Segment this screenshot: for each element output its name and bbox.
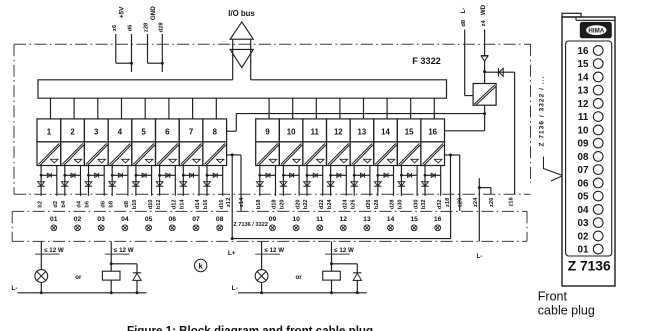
svg-text:F 3322: F 3322 — [412, 56, 441, 66]
node channel 16 split — [424, 174, 427, 177]
svg-text:or: or — [75, 274, 82, 281]
node channel 11 split — [306, 174, 309, 177]
svg-text:b32: b32 — [421, 199, 427, 209]
svg-text:08: 08 — [216, 216, 224, 223]
diode channel 6 horizontal — [160, 174, 176, 176]
wire bus drop channel 4 — [121, 98, 123, 119]
svg-text:4: 4 — [118, 128, 123, 137]
wire bus drop channel 3 — [97, 98, 99, 119]
svg-text:9: 9 — [265, 128, 270, 137]
svg-text:01: 01 — [50, 216, 58, 223]
svg-text:d28: d28 — [390, 199, 396, 209]
svg-text:02: 02 — [578, 231, 589, 242]
wire bus drop channel 5 — [144, 98, 146, 119]
node channel 14 split — [376, 174, 379, 177]
svg-text:05: 05 — [145, 216, 153, 223]
wire L- stub — [478, 178, 480, 241]
wire pin z6 (+5V) — [115, 34, 117, 63]
svg-text:d20: d20 — [295, 199, 301, 209]
wire L+ feed group1 — [227, 154, 241, 156]
node supply rail right — [483, 112, 486, 115]
leader line to plug — [544, 157, 563, 176]
channel 2 output driver (opto) — [61, 142, 85, 166]
svg-text:≤ 12 W: ≤ 12 W — [265, 247, 285, 254]
svg-text:Z 7136: Z 7136 — [568, 259, 611, 274]
svg-text:16: 16 — [434, 216, 442, 223]
node z24 junction — [478, 186, 481, 189]
channel 11 input box — [303, 119, 327, 142]
lamp load — [255, 270, 268, 283]
diode channel 4 vertical — [109, 182, 116, 186]
wire channel 14 output B — [393, 166, 395, 196]
channel 10 input box — [279, 119, 303, 142]
svg-text:03: 03 — [578, 218, 589, 229]
load wire lamp branch — [40, 241, 42, 269]
svg-text:14: 14 — [387, 216, 395, 223]
svg-text:1: 1 — [47, 128, 52, 137]
wire pin z14 — [240, 155, 242, 211]
svg-text:d32: d32 — [437, 199, 443, 209]
node GND junction — [161, 62, 164, 65]
wire L+ feed group2 — [445, 154, 460, 156]
node channel 2 split — [63, 174, 66, 177]
load wire relay branch — [110, 241, 112, 271]
svg-text:b22: b22 — [303, 199, 309, 209]
svg-text:b2: b2 — [37, 201, 43, 208]
svg-text:HIMA: HIMA — [588, 27, 604, 34]
node diode to L- — [136, 291, 139, 294]
wire pin z18 (L+) — [450, 155, 452, 211]
svg-text:14: 14 — [381, 128, 390, 137]
svg-text:b16: b16 — [203, 199, 209, 209]
channel 3 input box — [84, 119, 108, 142]
node channel 8 split — [206, 174, 209, 177]
svg-text:b12: b12 — [156, 199, 162, 209]
wire channel 1 output B — [56, 166, 58, 196]
svg-text:z24: z24 — [473, 197, 479, 207]
wire bus drop channel 8 — [215, 98, 217, 119]
svg-text:d16: d16 — [219, 199, 225, 209]
svg-text:L+: L+ — [228, 250, 236, 257]
module boundary dash-dot border — [14, 43, 531, 45]
wire channel 7 output A — [182, 166, 184, 196]
wire freewheeling branch — [111, 263, 137, 265]
node relay branch split — [110, 262, 113, 265]
node channel 15 split — [400, 174, 403, 177]
HIMA logo — [580, 22, 612, 38]
wire channel 12 output A — [330, 166, 332, 196]
svg-text:b20: b20 — [280, 199, 286, 209]
channel 7 output driver (opto) — [179, 142, 203, 166]
svg-text:13: 13 — [363, 216, 371, 223]
channel 2 input box — [61, 119, 85, 142]
channel 14 output driver (opto) — [374, 142, 398, 166]
lamp load — [35, 270, 48, 283]
node channel 9 split — [258, 174, 261, 177]
wire channel 12 output B — [345, 166, 347, 196]
plug terminal field — [566, 41, 612, 256]
diode channel 7 vertical — [180, 182, 187, 186]
diode channel 13 vertical — [351, 182, 358, 186]
wire channel 9 output B — [275, 166, 277, 196]
wire bus drop channel 2 — [73, 98, 75, 119]
diode channel 8 horizontal — [207, 174, 223, 176]
front cable plug body — [562, 17, 615, 286]
svg-text:10: 10 — [292, 216, 300, 223]
svg-text:≤ 12 W: ≤ 12 W — [334, 247, 354, 254]
svg-text:z4: z4 — [481, 19, 487, 26]
diode channel 12 vertical — [327, 182, 334, 186]
wire channel 5 output B — [151, 166, 153, 196]
wire bus drop channel 15 — [410, 98, 412, 119]
L- return rail — [238, 292, 367, 294]
svg-text:d18: d18 — [272, 199, 278, 209]
svg-text:L-: L- — [460, 8, 467, 14]
freewheeling diode — [133, 272, 141, 274]
svg-text:b6: b6 — [85, 201, 91, 208]
svg-text:09: 09 — [269, 216, 277, 223]
diode channel 16 vertical — [422, 182, 429, 186]
svg-text:04: 04 — [578, 205, 589, 216]
svg-text:10: 10 — [578, 125, 589, 136]
svg-text:d30: d30 — [413, 199, 419, 209]
wire bus drop channel 13 — [363, 98, 365, 119]
node +5V junction — [130, 62, 133, 65]
svg-text:z28: z28 — [144, 22, 150, 32]
svg-text:11: 11 — [311, 128, 320, 137]
diode channel 10 vertical — [280, 182, 287, 186]
diode channel 8 vertical — [204, 182, 211, 186]
svg-text:Z 7136 / 3322: Z 7136 / 3322 — [233, 222, 268, 228]
supply rail wire — [236, 113, 484, 115]
svg-text:8: 8 — [213, 128, 218, 137]
svg-text:d2: d2 — [53, 201, 59, 208]
wire bus drop channel 6 — [168, 98, 170, 119]
node lamp to L- — [40, 291, 43, 294]
diode channel 11 vertical — [304, 182, 311, 186]
load wire relay branch — [331, 241, 333, 271]
node relay branch split — [330, 262, 333, 265]
svg-text:12: 12 — [334, 128, 343, 137]
svg-text:15: 15 — [410, 216, 418, 223]
svg-text:≤ 12 W: ≤ 12 W — [44, 247, 64, 254]
svg-text:d14: d14 — [195, 199, 201, 210]
circled k note — [195, 259, 207, 271]
freewheeling diode — [353, 272, 361, 274]
svg-text:d28: d28 — [159, 22, 165, 33]
node channel 5 split — [135, 174, 138, 177]
svg-text:L-: L- — [476, 253, 482, 260]
wire bus drop channel 7 — [192, 98, 194, 119]
wire channel 13 output B — [369, 166, 371, 196]
svg-text:01: 01 — [578, 245, 589, 256]
svg-text:Front: Front — [538, 290, 568, 304]
svg-text:b18: b18 — [256, 199, 262, 209]
wire channel 13 output A — [353, 166, 355, 196]
diode channel 11 horizontal — [307, 174, 323, 176]
svg-text:07: 07 — [578, 165, 589, 176]
channel 13 input box — [350, 119, 374, 142]
svg-text:b30: b30 — [398, 199, 404, 209]
svg-text:d12: d12 — [172, 199, 178, 209]
diode D-z16 horizontal (cathode left) — [485, 71, 515, 73]
channel 6 input box — [156, 119, 180, 142]
svg-text:z12: z12 — [226, 198, 232, 207]
channel 8 output driver (opto) — [203, 142, 227, 166]
wire bus drop channel 16 — [433, 98, 435, 119]
svg-text:03: 03 — [97, 216, 105, 223]
svg-text:b26: b26 — [350, 199, 356, 209]
svg-text:05: 05 — [578, 192, 589, 203]
wire freewheeling branch — [332, 263, 358, 265]
channel 5 output driver (opto) — [132, 142, 156, 166]
node channel 13 split — [353, 174, 356, 177]
diode channel 7 horizontal — [183, 174, 199, 176]
relay coil load — [323, 271, 341, 280]
watchdog relay U-wd — [473, 84, 496, 106]
diode channel 15 vertical — [398, 182, 405, 186]
channel 10 output driver (opto) — [279, 142, 303, 166]
node channel 3 split — [87, 174, 90, 177]
wire channel 16 output A — [424, 166, 426, 196]
svg-text:b8: b8 — [108, 201, 114, 208]
wire bus drop channel 9 — [268, 98, 270, 119]
diode channel 2 vertical — [61, 182, 68, 186]
wire pin z12 (L+) — [231, 155, 233, 239]
wire channel 15 output B — [416, 166, 418, 196]
svg-text:L-: L- — [11, 285, 17, 292]
rail elbow to group 2 — [484, 114, 486, 131]
svg-text:d4: d4 — [77, 200, 83, 207]
node channel 12 split — [329, 174, 332, 177]
svg-text:7: 7 — [189, 128, 193, 137]
diode channel 1 vertical — [38, 182, 45, 186]
L- return rail — [18, 292, 147, 294]
svg-text:14: 14 — [578, 72, 589, 83]
diode channel 9 horizontal — [260, 174, 276, 176]
svg-text:16: 16 — [578, 46, 589, 57]
svg-text:b10: b10 — [132, 199, 138, 209]
node channel 10 split — [282, 174, 285, 177]
wire bus drop channel 1 — [50, 98, 52, 119]
svg-text:I/O bus: I/O bus — [228, 9, 255, 18]
svg-text:+5V: +5V — [119, 6, 126, 18]
wire channel 8 output B — [222, 166, 224, 196]
svg-text:d8: d8 — [461, 19, 467, 27]
diode channel 1 horizontal — [41, 174, 57, 176]
channel 6 output driver (opto) — [156, 142, 180, 166]
svg-text:or: or — [296, 274, 303, 281]
wire channel 4 output A — [111, 166, 113, 196]
diode channel 15 horizontal — [401, 174, 417, 176]
channel 9 output driver (opto) — [256, 142, 280, 166]
I/O bus arrow down — [230, 49, 253, 67]
wire bus drop channel 14 — [386, 98, 388, 119]
plug top tab — [562, 13, 581, 17]
channel 3 output driver (opto) — [84, 142, 108, 166]
wire channel 3 output B — [103, 166, 105, 196]
node channel 7 split — [182, 174, 185, 177]
svg-text:d6: d6 — [128, 24, 134, 32]
svg-text:d10: d10 — [148, 199, 154, 209]
diode channel 14 vertical — [374, 182, 381, 186]
diode channel 3 vertical — [85, 182, 92, 186]
I/O bus shaft — [232, 39, 234, 80]
wire watchdog output — [484, 105, 486, 113]
svg-text:15: 15 — [405, 128, 414, 137]
wire pin z4 WD input — [484, 30, 486, 56]
svg-text:cable plug: cable plug — [538, 304, 595, 318]
rail elbow to group 1 — [235, 114, 237, 132]
svg-text:b4: b4 — [61, 200, 67, 207]
node z12 junction — [231, 153, 234, 156]
wire pin z26 — [479, 187, 491, 189]
node z18 junction — [449, 154, 452, 157]
diode channel 4 horizontal — [112, 174, 128, 176]
node channel 4 split — [111, 174, 114, 177]
svg-text:z16: z16 — [508, 197, 514, 207]
svg-text:10: 10 — [287, 128, 296, 137]
relay coil load — [102, 271, 120, 280]
svg-text:02: 02 — [74, 216, 82, 223]
svg-text:11: 11 — [578, 112, 589, 123]
wire channel 16 output B — [440, 166, 442, 196]
svg-text:b24: b24 — [327, 199, 333, 210]
diode channel 10 horizontal — [283, 174, 299, 176]
channel 15 output driver (opto) — [397, 142, 421, 166]
svg-text:5: 5 — [142, 128, 147, 137]
wire channel 14 output A — [377, 166, 379, 196]
channel 14 input box — [374, 119, 398, 142]
diode channel 13 horizontal — [354, 174, 370, 176]
node channel 6 split — [158, 174, 161, 177]
wire channel 9 output A — [259, 166, 261, 196]
wire channel 3 output A — [88, 166, 90, 196]
wire channel 11 output A — [306, 166, 308, 196]
diode channel 16 horizontal — [425, 174, 441, 176]
diode channel 5 horizontal — [136, 174, 152, 176]
wire channel 5 output A — [135, 166, 137, 196]
wire pin d28 (GND) — [161, 34, 163, 72]
svg-text:08: 08 — [578, 152, 589, 163]
svg-text:06: 06 — [578, 178, 589, 189]
svg-text:Figure 1: Block diagram and fr: Figure 1: Block diagram and front cable … — [127, 325, 373, 331]
channel 8 input box — [203, 119, 227, 142]
svg-text:b14: b14 — [180, 199, 186, 210]
wire channel 8 output A — [206, 166, 208, 196]
svg-text:d24: d24 — [343, 199, 349, 210]
svg-text:b28: b28 — [374, 199, 380, 209]
svg-text:09: 09 — [578, 139, 589, 150]
svg-text:04: 04 — [121, 216, 129, 223]
node lamp to L- — [260, 291, 263, 294]
wire channel 15 output A — [400, 166, 402, 196]
svg-text:d8: d8 — [124, 201, 130, 208]
cable plug boundary dash-dot — [12, 210, 527, 212]
channel 4 input box — [108, 119, 132, 142]
channel 9 input box — [256, 119, 280, 142]
svg-text:z14: z14 — [239, 197, 245, 207]
wire to pin z16 — [514, 72, 516, 194]
channel 12 input box — [327, 119, 351, 142]
svg-text:d22: d22 — [319, 199, 325, 209]
channel 15 input box — [397, 119, 421, 142]
svg-text:13: 13 — [358, 128, 367, 137]
svg-text:07: 07 — [192, 216, 200, 223]
wire pin z20 — [459, 155, 461, 211]
diode channel 6 vertical — [156, 182, 163, 186]
wire channel 7 output B — [198, 166, 200, 196]
channel 12 output driver (opto) — [327, 142, 351, 166]
wire bus drop channel 12 — [339, 98, 341, 119]
svg-text:d26: d26 — [366, 199, 372, 209]
svg-text:d6: d6 — [100, 201, 106, 208]
node channel 1 split — [40, 174, 43, 177]
diode channel 12 horizontal — [331, 174, 347, 176]
svg-text:16: 16 — [428, 128, 437, 137]
svg-text:WD: WD — [480, 4, 487, 15]
node WD junction — [483, 70, 486, 73]
wire channel 10 output A — [282, 166, 284, 196]
I/O bus arrow up — [230, 22, 253, 39]
svg-text:15: 15 — [578, 59, 589, 70]
channel 7 input box — [179, 119, 203, 142]
channel 1 input box — [37, 119, 61, 142]
svg-text:2: 2 — [70, 128, 75, 137]
wire pin d8 L- input — [464, 30, 466, 96]
svg-text:≤ 12 W: ≤ 12 W — [114, 247, 134, 254]
wire channel 2 output A — [64, 166, 66, 196]
L+ distribution wire — [232, 238, 450, 240]
wire channel 1 output A — [40, 166, 42, 196]
svg-text:06: 06 — [169, 216, 177, 223]
wire pin z28 (GND) — [147, 34, 149, 63]
wire channel 2 output B — [80, 166, 82, 196]
wire channel 6 output B — [174, 166, 176, 196]
diode channel 5 vertical — [133, 182, 140, 186]
node coil to L- — [110, 291, 113, 294]
svg-text:13: 13 — [578, 86, 589, 97]
wire pin d6 (+5V) — [131, 34, 133, 72]
svg-text:Z 7136 / 3322 / ...: Z 7136 / 3322 / ... — [538, 76, 545, 147]
wire channel 11 output B — [322, 166, 324, 196]
node diode to L- — [356, 291, 359, 294]
wire channel 10 output B — [298, 166, 300, 196]
wire bus drop channel 10 — [292, 98, 294, 119]
svg-text:z18: z18 — [445, 197, 451, 207]
logic bus bar — [38, 80, 447, 98]
svg-text:GND: GND — [150, 6, 157, 21]
svg-text:6: 6 — [165, 128, 170, 137]
node coil to L- — [330, 291, 333, 294]
channel 16 output driver (opto) — [421, 142, 445, 166]
diode channel 14 horizontal — [378, 174, 394, 176]
svg-text:12: 12 — [578, 99, 589, 110]
svg-text:z20: z20 — [458, 198, 464, 207]
wire channel 6 output A — [159, 166, 161, 196]
svg-text:L-: L- — [232, 285, 238, 292]
svg-text:12: 12 — [340, 216, 348, 223]
channel 1 output driver (opto) — [37, 142, 61, 166]
wire channel 4 output B — [127, 166, 129, 196]
channel 16 input box — [421, 119, 445, 142]
channel 11 output driver (opto) — [303, 142, 327, 166]
svg-text:11: 11 — [316, 216, 323, 223]
svg-text:3: 3 — [94, 128, 99, 137]
wire bus drop channel 11 — [315, 98, 317, 119]
diode channel 9 vertical — [256, 182, 263, 186]
channel 4 output driver (opto) — [108, 142, 132, 166]
